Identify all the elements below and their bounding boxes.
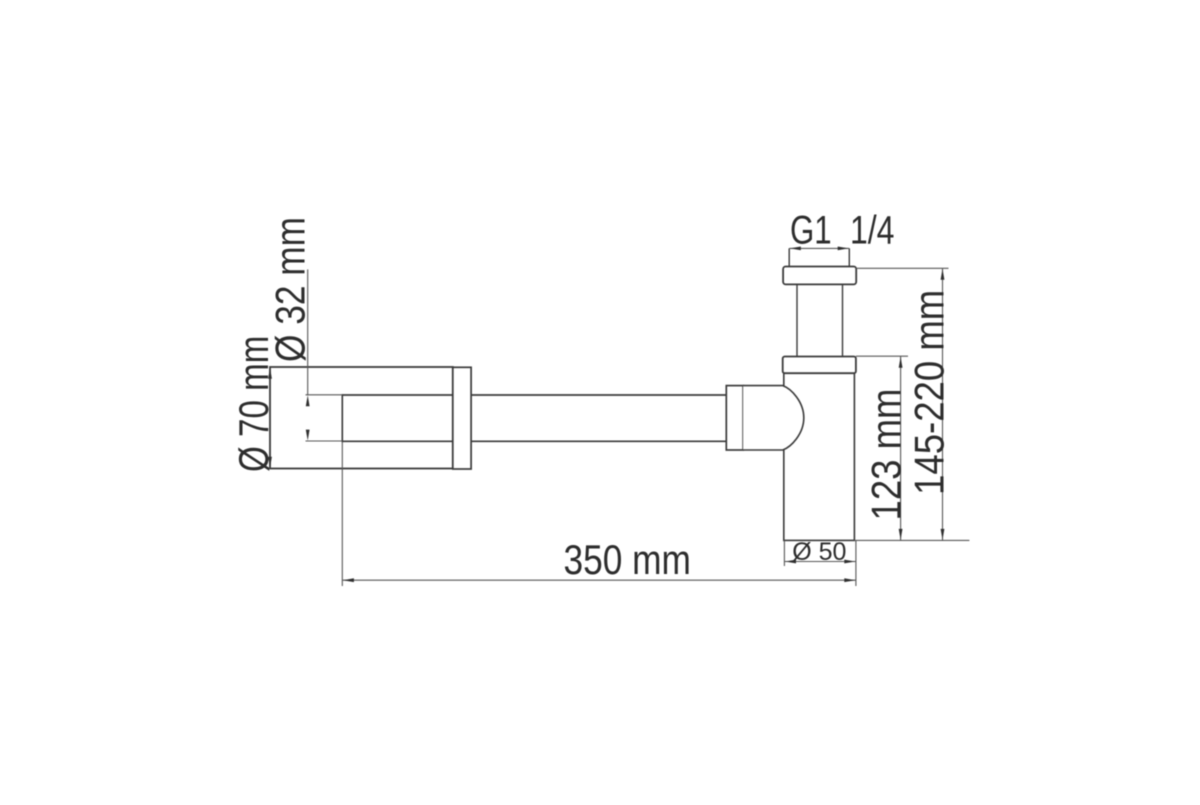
svg-text:Ø 70 mm: Ø 70 mm	[231, 336, 278, 472]
svg-text:1/4: 1/4	[850, 207, 894, 252]
svg-text:123 mm: 123 mm	[863, 389, 910, 521]
svg-text:350 mm: 350 mm	[564, 537, 691, 584]
svg-text:145-220 mm: 145-220 mm	[906, 290, 953, 495]
svg-text:G1: G1	[790, 208, 832, 253]
svg-text:Ø 50: Ø 50	[792, 538, 846, 566]
